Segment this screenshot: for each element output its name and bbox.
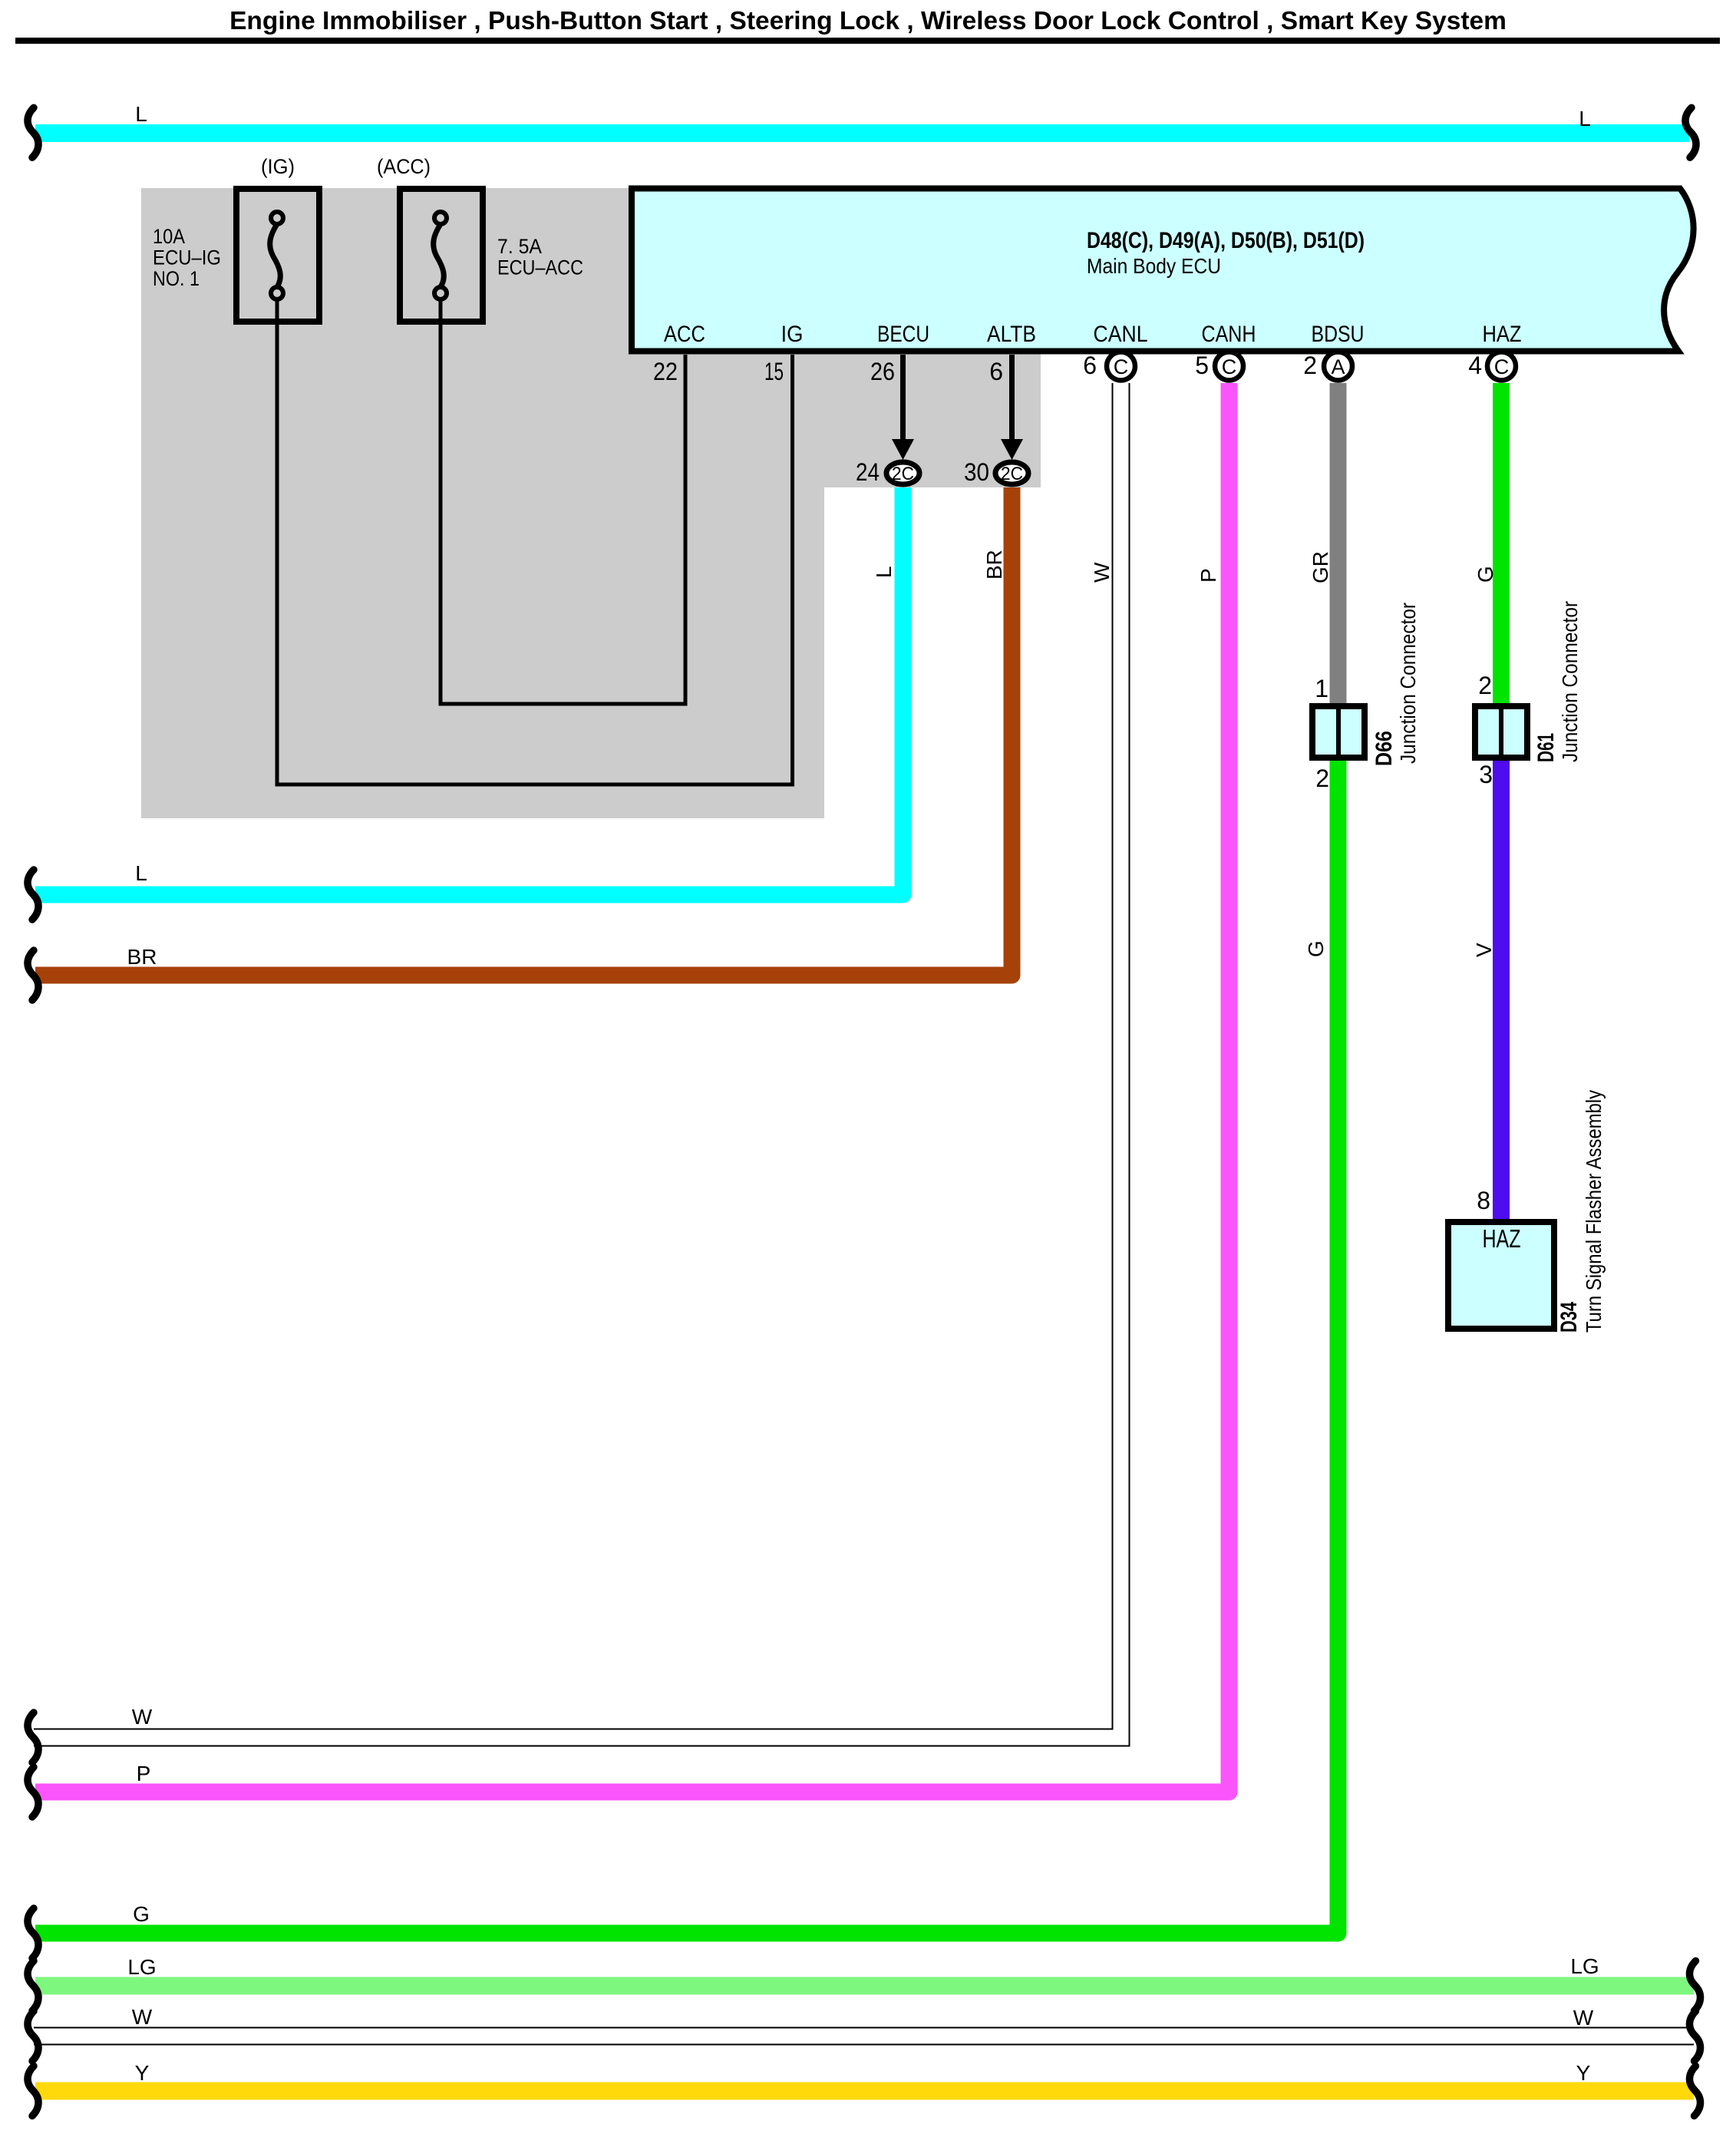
svg-text:5: 5	[1195, 352, 1209, 379]
turn signal flasher assembly D34	[1448, 1222, 1554, 1329]
svg-text:22: 22	[653, 358, 678, 385]
svg-text:P: P	[1196, 568, 1220, 583]
connector break curl L mid	[28, 870, 38, 920]
svg-text:D34: D34	[1556, 1302, 1582, 1333]
wire G (green) HAZ to D61	[1493, 383, 1510, 703]
svg-text:Y: Y	[135, 2061, 150, 2085]
connector break curl LG right	[1689, 1961, 1700, 2011]
svg-text:A: A	[1331, 355, 1345, 378]
wire L (cyan) from 2C down-left	[35, 487, 903, 895]
svg-text:Junction Connector: Junction Connector	[1396, 603, 1420, 764]
connector break curl P	[28, 1767, 38, 1817]
svg-text:CANL: CANL	[1094, 322, 1148, 347]
svg-text:G: G	[133, 1902, 150, 1926]
svg-text:V: V	[1472, 943, 1496, 957]
connector break curl W2 right	[1689, 2011, 1700, 2061]
svg-text:ECU–ACC: ECU–ACC	[497, 256, 583, 279]
wire P (pink) CANH down-left	[35, 383, 1229, 1792]
connector 2C (24)	[886, 462, 919, 484]
svg-text:D66: D66	[1371, 731, 1397, 766]
svg-text:2: 2	[1303, 352, 1317, 379]
svg-text:BDSU: BDSU	[1312, 322, 1365, 347]
connector break curl W2 left	[28, 2011, 38, 2061]
svg-text:NO. 1: NO. 1	[153, 267, 200, 290]
svg-text:15: 15	[764, 358, 784, 385]
svg-text:L: L	[135, 861, 147, 885]
svg-text:2C: 2C	[892, 464, 914, 484]
svg-text:P: P	[137, 1762, 151, 1785]
svg-text:1: 1	[1315, 675, 1328, 702]
svg-text:HAZ: HAZ	[1483, 1224, 1521, 1253]
svg-text:BR: BR	[982, 550, 1006, 580]
wire fuse IG to ECU pin 15	[277, 298, 793, 784]
svg-text:L: L	[872, 566, 896, 578]
svg-text:G: G	[1474, 566, 1497, 583]
grey relay block background	[141, 188, 1041, 818]
junction connector D66	[1312, 706, 1365, 758]
connector circle C pin 5 (CANH)	[1215, 352, 1243, 381]
svg-text:Engine Immobiliser , Push-Butt: Engine Immobiliser , Push-Button Start ,…	[229, 7, 1507, 35]
svg-text:2C: 2C	[1001, 464, 1023, 484]
svg-text:3: 3	[1479, 761, 1493, 788]
junction connector D61	[1475, 706, 1527, 758]
svg-text:CANH: CANH	[1202, 322, 1256, 347]
connector circle C pin 6 (CANL)	[1107, 352, 1135, 381]
svg-text:D48(C), D49(A), D50(B), D51(D): D48(C), D49(A), D50(B), D51(D)	[1087, 228, 1365, 253]
svg-text:W: W	[1090, 562, 1114, 583]
svg-text:LG: LG	[127, 1955, 156, 1979]
svg-text:8: 8	[1477, 1187, 1490, 1214]
svg-text:(ACC): (ACC)	[377, 155, 431, 178]
svg-text:Junction Connector: Junction Connector	[1558, 601, 1582, 762]
connector circle A pin 2 (BDSU)	[1324, 352, 1352, 381]
connector break curl Y left	[28, 2066, 38, 2116]
connector break curl BR	[28, 950, 38, 1000]
title rule	[15, 38, 1720, 44]
wire GR (grey) BDSU to D66	[1330, 383, 1347, 703]
svg-text:G: G	[1304, 940, 1328, 957]
svg-text:30: 30	[964, 458, 989, 486]
wire fuse ACC to ECU pin 22	[441, 298, 685, 704]
wire LG (light green)	[35, 1977, 1694, 1995]
connector break curl Y right	[1689, 2066, 1700, 2116]
wire L top (cyan)	[35, 124, 1689, 142]
svg-text:26: 26	[870, 358, 895, 385]
connector break curl W	[28, 1713, 38, 1762]
svg-text:C: C	[1114, 355, 1129, 378]
pin 26 arrow to 2C	[900, 355, 906, 444]
svg-text:ALTB: ALTB	[987, 322, 1036, 347]
connector break curl left of L	[28, 107, 38, 157]
svg-text:10A: 10A	[153, 225, 185, 248]
connector break curl LG left	[28, 1961, 38, 2011]
svg-text:C: C	[1494, 355, 1510, 378]
connector break curl G	[28, 1908, 38, 1958]
svg-text:W: W	[132, 1705, 153, 1729]
svg-text:W: W	[132, 2005, 153, 2029]
connector break curl right of L	[1685, 107, 1696, 157]
connector circle C pin 4 (HAZ)	[1487, 352, 1516, 381]
wire Y (yellow)	[35, 2083, 1694, 2100]
svg-text:BR: BR	[127, 945, 157, 969]
svg-text:D61: D61	[1533, 733, 1559, 762]
svg-text:2: 2	[1478, 672, 1492, 699]
wire W bottom (white)	[34, 2027, 1694, 2046]
fuse ECU-ACC	[400, 189, 483, 322]
wire BR (brown) from 2C down-left	[35, 487, 1012, 976]
svg-text:4: 4	[1468, 352, 1482, 379]
svg-text:(IG): (IG)	[261, 155, 295, 178]
svg-text:6: 6	[1083, 352, 1097, 379]
svg-text:LG: LG	[1570, 1954, 1599, 1978]
svg-text:ACC: ACC	[664, 322, 705, 347]
wire V (violet) D61 to D34	[1493, 761, 1510, 1219]
svg-text:6: 6	[989, 358, 1003, 385]
svg-text:Turn Signal Flasher Assembly: Turn Signal Flasher Assembly	[1582, 1090, 1606, 1333]
svg-text:ECU–IG: ECU–IG	[153, 246, 221, 269]
svg-text:Y: Y	[1576, 2061, 1591, 2085]
svg-text:IG: IG	[781, 322, 804, 347]
wire W (white) CANL down-left	[34, 383, 1121, 1738]
svg-text:24: 24	[856, 458, 880, 486]
svg-text:7. 5A: 7. 5A	[497, 235, 542, 258]
pin 6 arrow to 2C	[1009, 355, 1015, 444]
svg-text:L: L	[1579, 107, 1591, 130]
connector 2C (30)	[995, 462, 1028, 484]
fuse ECU-IG	[236, 189, 319, 322]
wire G (green) from D66 down-left	[35, 761, 1338, 1934]
svg-text:Main Body ECU: Main Body ECU	[1087, 254, 1221, 278]
Main Body ECU box D48-D51	[632, 189, 1694, 352]
svg-text:GR: GR	[1309, 551, 1332, 583]
svg-text:C: C	[1222, 355, 1237, 378]
svg-text:HAZ: HAZ	[1483, 322, 1522, 347]
svg-text:BECU: BECU	[877, 322, 929, 347]
svg-text:L: L	[135, 102, 147, 126]
svg-text:2: 2	[1315, 765, 1329, 792]
svg-text:W: W	[1573, 2006, 1594, 2030]
